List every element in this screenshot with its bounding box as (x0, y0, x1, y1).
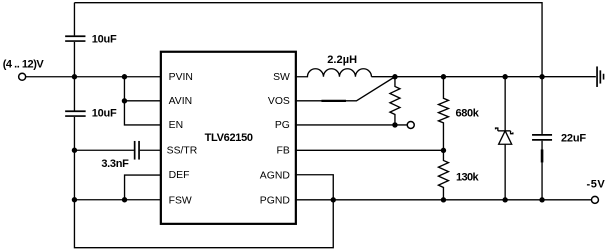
wire PG (295, 124, 407, 126)
wire SW node (inductor to ground) (371, 76, 595, 78)
-5V output terminal (586, 179, 605, 204)
junction PG / R1 (392, 122, 397, 127)
pin PGND (260, 195, 290, 206)
svg-text:FSW: FSW (169, 195, 192, 206)
pin PG (275, 120, 290, 131)
svg-text:EN: EN (169, 120, 183, 131)
pin PVIN (169, 72, 193, 83)
input terminal (4 .. 12)V (3, 59, 45, 81)
junction input / left rail (72, 74, 77, 79)
svg-text:PG: PG (275, 120, 290, 131)
wire DEF (125, 175, 162, 200)
svg-text:TLV62150: TLV62150 (205, 132, 253, 144)
capacitor C3 3.3nF (SS/TR) (74, 141, 161, 170)
junction 130k / -5V rail (441, 197, 446, 202)
wire EN (124, 101, 161, 125)
wire AVIN (124, 77, 161, 101)
PG open terminal (407, 121, 414, 128)
pin DEF (169, 170, 190, 181)
capacitor C2 10uF (input bypass) (65, 77, 117, 151)
ground (597, 66, 604, 87)
pin SW (273, 72, 290, 83)
pin AVIN (169, 96, 192, 107)
pin FSW (169, 195, 192, 206)
junction DEF / FSW (122, 197, 127, 202)
wire FB (295, 149, 444, 151)
svg-text:FB: FB (277, 145, 290, 156)
pin EN (169, 120, 183, 131)
wire AGND (295, 175, 333, 200)
IC U1 TLV62150 body (161, 52, 296, 224)
junction AVIN / EN branch (122, 98, 127, 103)
svg-text:(4 .. 12)V: (4 .. 12)V (3, 59, 45, 71)
svg-text:VOS: VOS (268, 96, 290, 107)
svg-text:SW: SW (273, 72, 290, 83)
svg-text:10uF: 10uF (92, 107, 117, 119)
svg-text:10uF: 10uF (92, 34, 117, 46)
capacitor C4 22uF (output) (532, 77, 586, 200)
wire input node to PVIN (26, 76, 162, 78)
wire bottom rail (FSW node to AGND/PGND) (74, 200, 333, 248)
resistor R1 (PG pull-up) (390, 77, 400, 125)
wire FSW (74, 199, 161, 201)
pin VOS (268, 96, 290, 107)
inductor L1 2.2uH (295, 54, 372, 77)
wire left rail lower (73, 150, 75, 200)
wire top rail from C1 to output cap branch (74, 3, 542, 77)
junction SW node / 680k (441, 74, 446, 79)
svg-text:PVIN: PVIN (169, 72, 193, 83)
junction SW node / R1 (392, 74, 397, 79)
junction diode / -5V rail (502, 197, 507, 202)
svg-text:AGND: AGND (260, 171, 290, 182)
junction FB / divider (441, 148, 446, 153)
junction SW node / 22uF and top rail (539, 74, 544, 79)
svg-text:22uF: 22uF (561, 133, 586, 145)
resistor R3 130k (438, 150, 479, 200)
svg-text:130k: 130k (456, 171, 480, 183)
svg-text:DEF: DEF (169, 170, 190, 181)
svg-text:680k: 680k (455, 107, 479, 119)
pin FB (277, 145, 290, 156)
pin SS/TR (167, 145, 198, 156)
junction FSW / left rail (72, 197, 77, 202)
capacitor C1 10uF (input to top rail) (65, 3, 117, 77)
svg-text:PGND: PGND (260, 195, 290, 206)
svg-text:SS/TR: SS/TR (167, 145, 198, 156)
junction input / AVIN branch (122, 74, 127, 79)
wire PGND to -5V output rail (295, 199, 591, 201)
svg-text:-5V: -5V (586, 179, 605, 191)
svg-text:3.3nF: 3.3nF (101, 158, 129, 170)
junction SW node / diode (502, 74, 507, 79)
pin AGND (260, 171, 290, 182)
svg-text:2.2µH: 2.2µH (327, 54, 357, 66)
junction 22uF / -5V rail (539, 197, 544, 202)
junction AGND branch / PGND rail (331, 197, 336, 202)
wire VOS with diagonal to SW node (295, 77, 395, 101)
resistor R2 680k (438, 77, 479, 151)
diode D1 (Schottky) (496, 77, 513, 200)
junction SS/TR / left rail (72, 148, 77, 153)
svg-text:AVIN: AVIN (169, 96, 192, 107)
